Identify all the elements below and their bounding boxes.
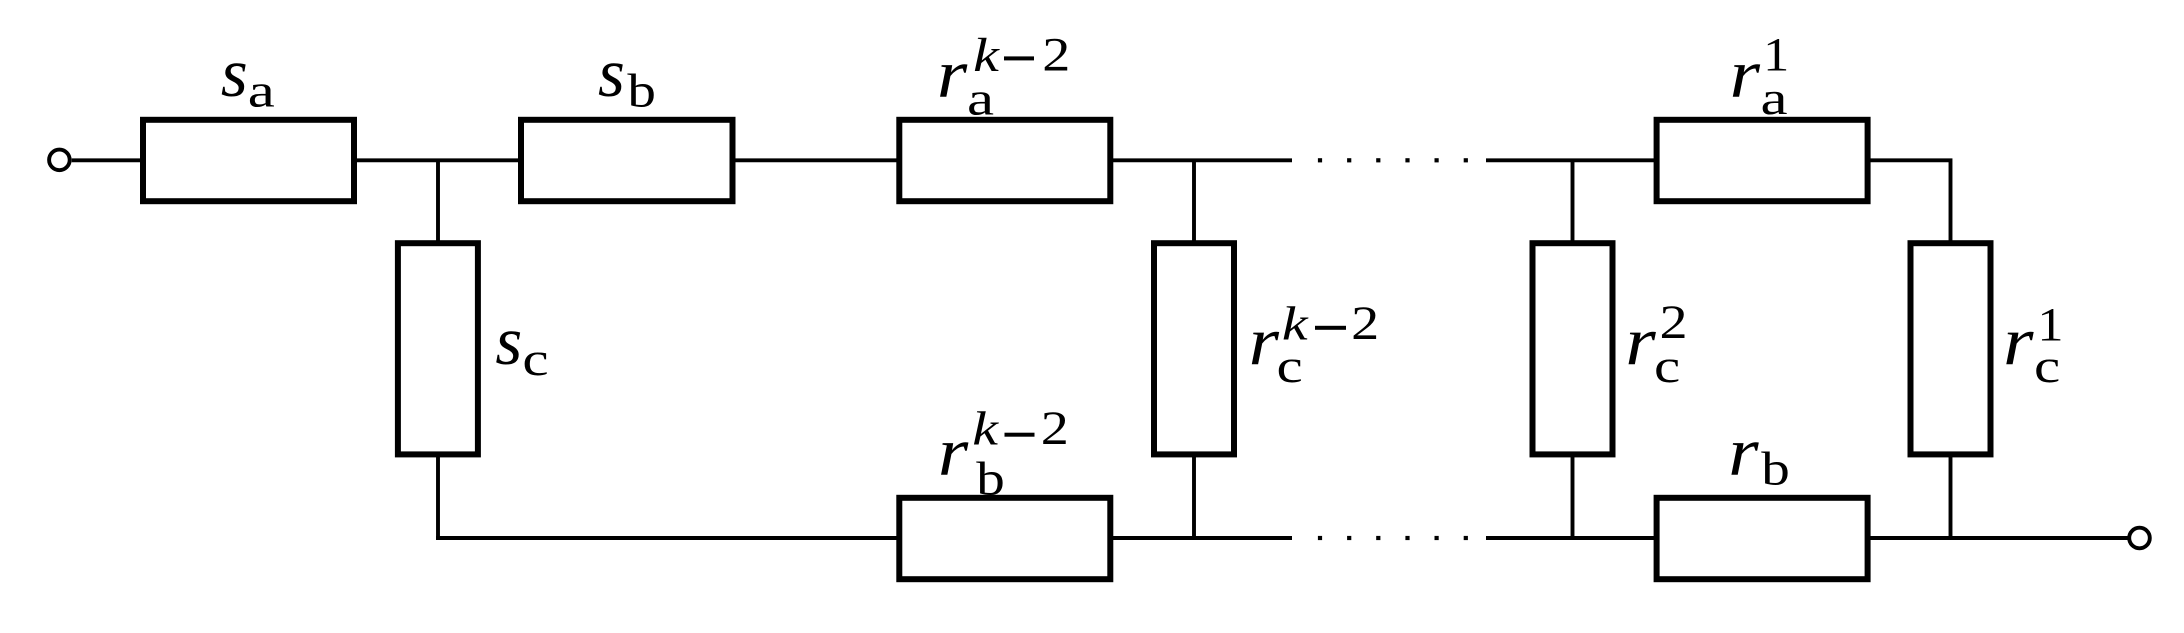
bottom rail r_b^k-2 to dots xyxy=(1112,536,1292,540)
svg-text:2: 2 xyxy=(1351,297,1379,350)
svg-text:c: c xyxy=(522,332,548,386)
resistor r_a^k-2 xyxy=(899,120,1110,201)
wire r_c^k-2 down to bottom rail xyxy=(1192,456,1196,538)
dotted wire top xyxy=(1318,158,1468,162)
resistor s_a xyxy=(143,120,354,201)
dotted wire bottom xyxy=(1318,536,1468,540)
wire r_a^1 corner to r_c^1 xyxy=(1870,160,1951,241)
wire r_c^1 down to bottom rail xyxy=(1949,456,1953,538)
svg-text:2: 2 xyxy=(1041,402,1069,455)
bottom rail s_c to r_b^k-2 xyxy=(436,536,897,540)
resistor r_b^k-2 xyxy=(899,498,1110,579)
bottom rail dots to r_b xyxy=(1486,536,1655,540)
svg-text:r: r xyxy=(1728,413,1759,490)
svg-text:r: r xyxy=(2003,302,2034,379)
wire input to s_a xyxy=(72,158,141,162)
svg-text:r: r xyxy=(1249,302,1280,379)
resistor r_b xyxy=(1657,498,1868,579)
label r_c^2 xyxy=(1625,296,1687,393)
label r_b xyxy=(1728,413,1790,496)
svg-text:b: b xyxy=(627,65,656,118)
svg-text:c: c xyxy=(1654,339,1680,393)
svg-text:b: b xyxy=(1761,443,1790,496)
svg-text:c: c xyxy=(1277,339,1303,393)
wire junction C down to r_c^2 xyxy=(1571,160,1575,241)
resistor s_b xyxy=(521,120,733,201)
output terminal xyxy=(2129,528,2150,549)
svg-text:r: r xyxy=(937,35,968,112)
resistor r_c^2 xyxy=(1533,243,1613,454)
label r_c^1 xyxy=(2003,297,2063,393)
svg-text:2: 2 xyxy=(1042,28,1070,81)
label r_a^k-2 xyxy=(937,28,1070,124)
wire s_c down to bottom rail xyxy=(436,456,440,540)
input terminal xyxy=(49,150,70,171)
label s_c xyxy=(495,303,548,385)
svg-text:s: s xyxy=(598,35,625,111)
svg-text:s: s xyxy=(221,35,248,111)
svg-text:r: r xyxy=(938,413,969,490)
bottom rail r_b to output xyxy=(1870,536,2129,540)
resistor s_c xyxy=(398,243,478,454)
label r_a^1 xyxy=(1730,28,1790,125)
label r_c^k-2 xyxy=(1249,297,1380,393)
wire junction A down to s_c xyxy=(436,160,440,241)
svg-text:s: s xyxy=(495,303,522,379)
resistor r_c^k-2 xyxy=(1154,243,1234,454)
resistor r_a^1 xyxy=(1657,120,1868,201)
svg-text:a: a xyxy=(248,64,275,117)
wire r_a^k-2 to dots xyxy=(1112,158,1292,162)
svg-text:r: r xyxy=(1730,35,1761,112)
wire dots to r_a^1 xyxy=(1486,158,1655,162)
svg-text:b: b xyxy=(976,453,1005,506)
svg-text:r: r xyxy=(1625,302,1656,379)
wire s_a to s_b xyxy=(356,158,519,162)
label s_b xyxy=(598,35,656,117)
svg-text:k: k xyxy=(972,402,999,455)
svg-text:a: a xyxy=(1761,71,1788,124)
svg-text:a: a xyxy=(967,71,994,124)
label s_a xyxy=(221,35,275,117)
resistor r_c^1 xyxy=(1911,243,1991,454)
wire r_c^2 down to bottom rail xyxy=(1571,456,1575,538)
wire s_b to r_a^k-2 xyxy=(735,158,898,162)
wire junction B down to r_c^k-2 xyxy=(1192,160,1196,241)
svg-text:c: c xyxy=(2034,339,2060,393)
label r_b^k-2 xyxy=(938,402,1069,506)
